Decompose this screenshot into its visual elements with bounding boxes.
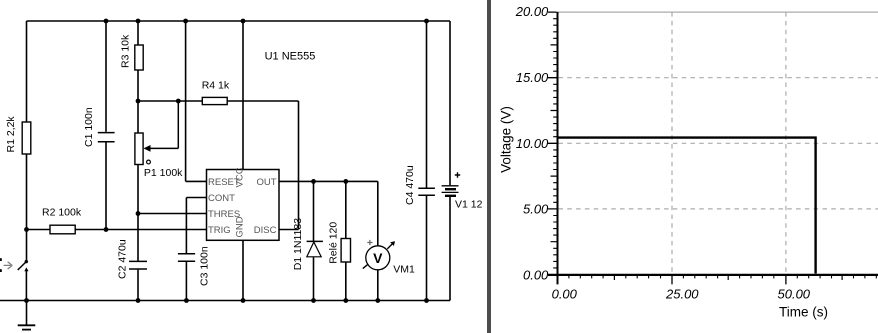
- chart y labels: [515, 4, 549, 282]
- wire node A (R3/P1/R4): [138, 100, 202, 102]
- svg-text:50.00: 50.00: [778, 287, 811, 302]
- svg-text:C4 470u: C4 470u: [404, 165, 416, 205]
- svg-text:Voltage (V): Voltage (V): [499, 106, 514, 173]
- resistor R2: [27, 207, 207, 234]
- svg-text:R2 100k: R2 100k: [42, 207, 82, 219]
- capacitor C1: [83, 21, 115, 230]
- wire DISC pin 7: [279, 229, 299, 231]
- wire RESET net: [186, 21, 207, 181]
- svg-text:TRIG: TRIG: [208, 225, 231, 236]
- relay coil Relé 120: [328, 181, 351, 300]
- potentiometer P1: [135, 101, 183, 261]
- svg-text:DISC: DISC: [254, 225, 277, 236]
- svg-text:R4 1k: R4 1k: [202, 80, 230, 92]
- wire right rail to battery: [449, 21, 451, 301]
- wire bottom rail ground net: [0, 300, 450, 302]
- svg-text:VCC: VCC: [235, 167, 246, 187]
- chart x labels: [552, 287, 811, 302]
- curve VM1 voltage trace: [558, 138, 816, 274]
- svg-text:C2 470u: C2 470u: [117, 239, 129, 279]
- node junction dots: [24, 19, 429, 303]
- resistor R3: [120, 21, 144, 101]
- resistor R1: [5, 21, 31, 260]
- wire VCC pin 8: [242, 21, 244, 170]
- svg-text:GND: GND: [235, 216, 246, 237]
- chart x-axis: [548, 275, 878, 285]
- svg-text:C3 100n: C3 100n: [199, 246, 211, 286]
- svg-text:20.00: 20.00: [515, 4, 549, 19]
- diode D1 1N1183: [292, 181, 323, 300]
- svg-text:V: V: [373, 250, 383, 266]
- svg-text:R3 10k: R3 10k: [120, 34, 132, 68]
- capacitor C4: [404, 21, 435, 301]
- svg-text:D1 1N1183: D1 1N1183: [292, 218, 304, 271]
- svg-text:CONT: CONT: [208, 193, 235, 204]
- svg-text:0.00: 0.00: [552, 287, 578, 302]
- svg-text:P1 100k: P1 100k: [144, 167, 183, 179]
- svg-text:5.00: 5.00: [523, 201, 549, 216]
- wire OUT net: [279, 181, 378, 245]
- svg-text:U1 NE555: U1 NE555: [265, 50, 316, 62]
- battery V1 12: [442, 172, 483, 210]
- svg-text:25.00: 25.00: [665, 287, 699, 302]
- capacitor C2: [117, 239, 148, 300]
- wire top rail +V: [27, 20, 451, 22]
- svg-text:C1 100n: C1 100n: [83, 107, 95, 147]
- svg-text:15.00: 15.00: [516, 70, 549, 85]
- svg-text:OUT: OUT: [256, 177, 276, 188]
- svg-text:10.00: 10.00: [516, 136, 549, 151]
- svg-text:R1 2,2k: R1 2,2k: [5, 116, 17, 153]
- ground: [18, 301, 36, 330]
- svg-text:Time (s): Time (s): [779, 305, 828, 320]
- switch S: [0, 258, 29, 300]
- svg-text:0.00: 0.00: [523, 268, 549, 283]
- capacitor C3 and CONT net: [178, 198, 211, 301]
- chart gridlines: [558, 12, 878, 274]
- chart y-axis: [548, 12, 558, 285]
- wire THRES net: [138, 213, 207, 215]
- svg-text:V1 12: V1 12: [455, 199, 483, 211]
- resistor R4: [202, 80, 299, 105]
- voltmeter VM1: [363, 240, 415, 301]
- svg-text:Relé 120: Relé 120: [328, 222, 340, 264]
- svg-text:VM1: VM1: [393, 264, 415, 276]
- window divider: [487, 0, 491, 333]
- op-amp U1 NE555 IC box: [207, 50, 316, 240]
- wire R4 to DISC: [298, 101, 300, 230]
- wire GND pin 1: [242, 240, 244, 300]
